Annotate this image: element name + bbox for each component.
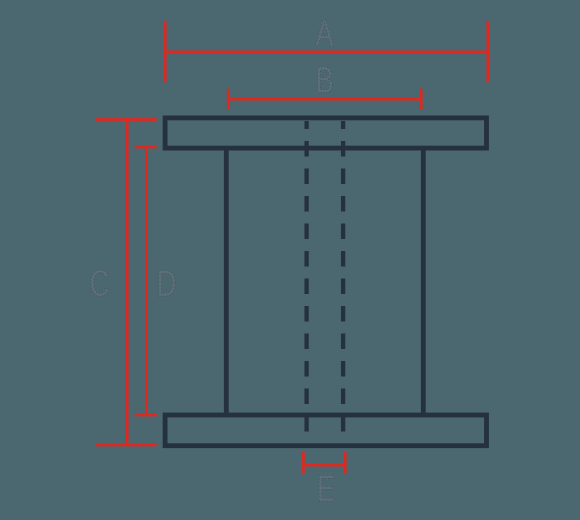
svg-text:B: B xyxy=(315,59,333,100)
dimension D bottom tick xyxy=(135,414,157,417)
dimension C bottom tick xyxy=(95,444,156,447)
dimension B right tick xyxy=(420,89,423,110)
dimension D vertical line xyxy=(145,147,148,415)
dimension A left tick xyxy=(164,21,167,83)
dimension D top tick xyxy=(135,146,157,149)
svg-text:A: A xyxy=(315,13,334,54)
dimension B left tick xyxy=(227,89,230,110)
barrel left wall xyxy=(224,150,229,412)
dimension C top tick xyxy=(95,118,156,121)
dimension E right tick xyxy=(344,452,347,474)
axis dashed line right xyxy=(341,121,345,448)
spool bottom flange xyxy=(165,415,486,446)
svg-text:C: C xyxy=(90,263,110,304)
axis dashed line left xyxy=(304,121,308,448)
dimension B line xyxy=(228,98,421,101)
dimension E line xyxy=(303,464,345,467)
dimension C vertical line xyxy=(126,120,129,446)
dimension A line xyxy=(165,50,488,53)
svg-text:E: E xyxy=(317,468,335,509)
svg-text:D: D xyxy=(157,263,177,304)
dimension E left tick xyxy=(302,452,305,474)
barrel right wall xyxy=(421,150,426,412)
spool top flange xyxy=(165,118,486,148)
dimension A right tick xyxy=(486,21,489,83)
